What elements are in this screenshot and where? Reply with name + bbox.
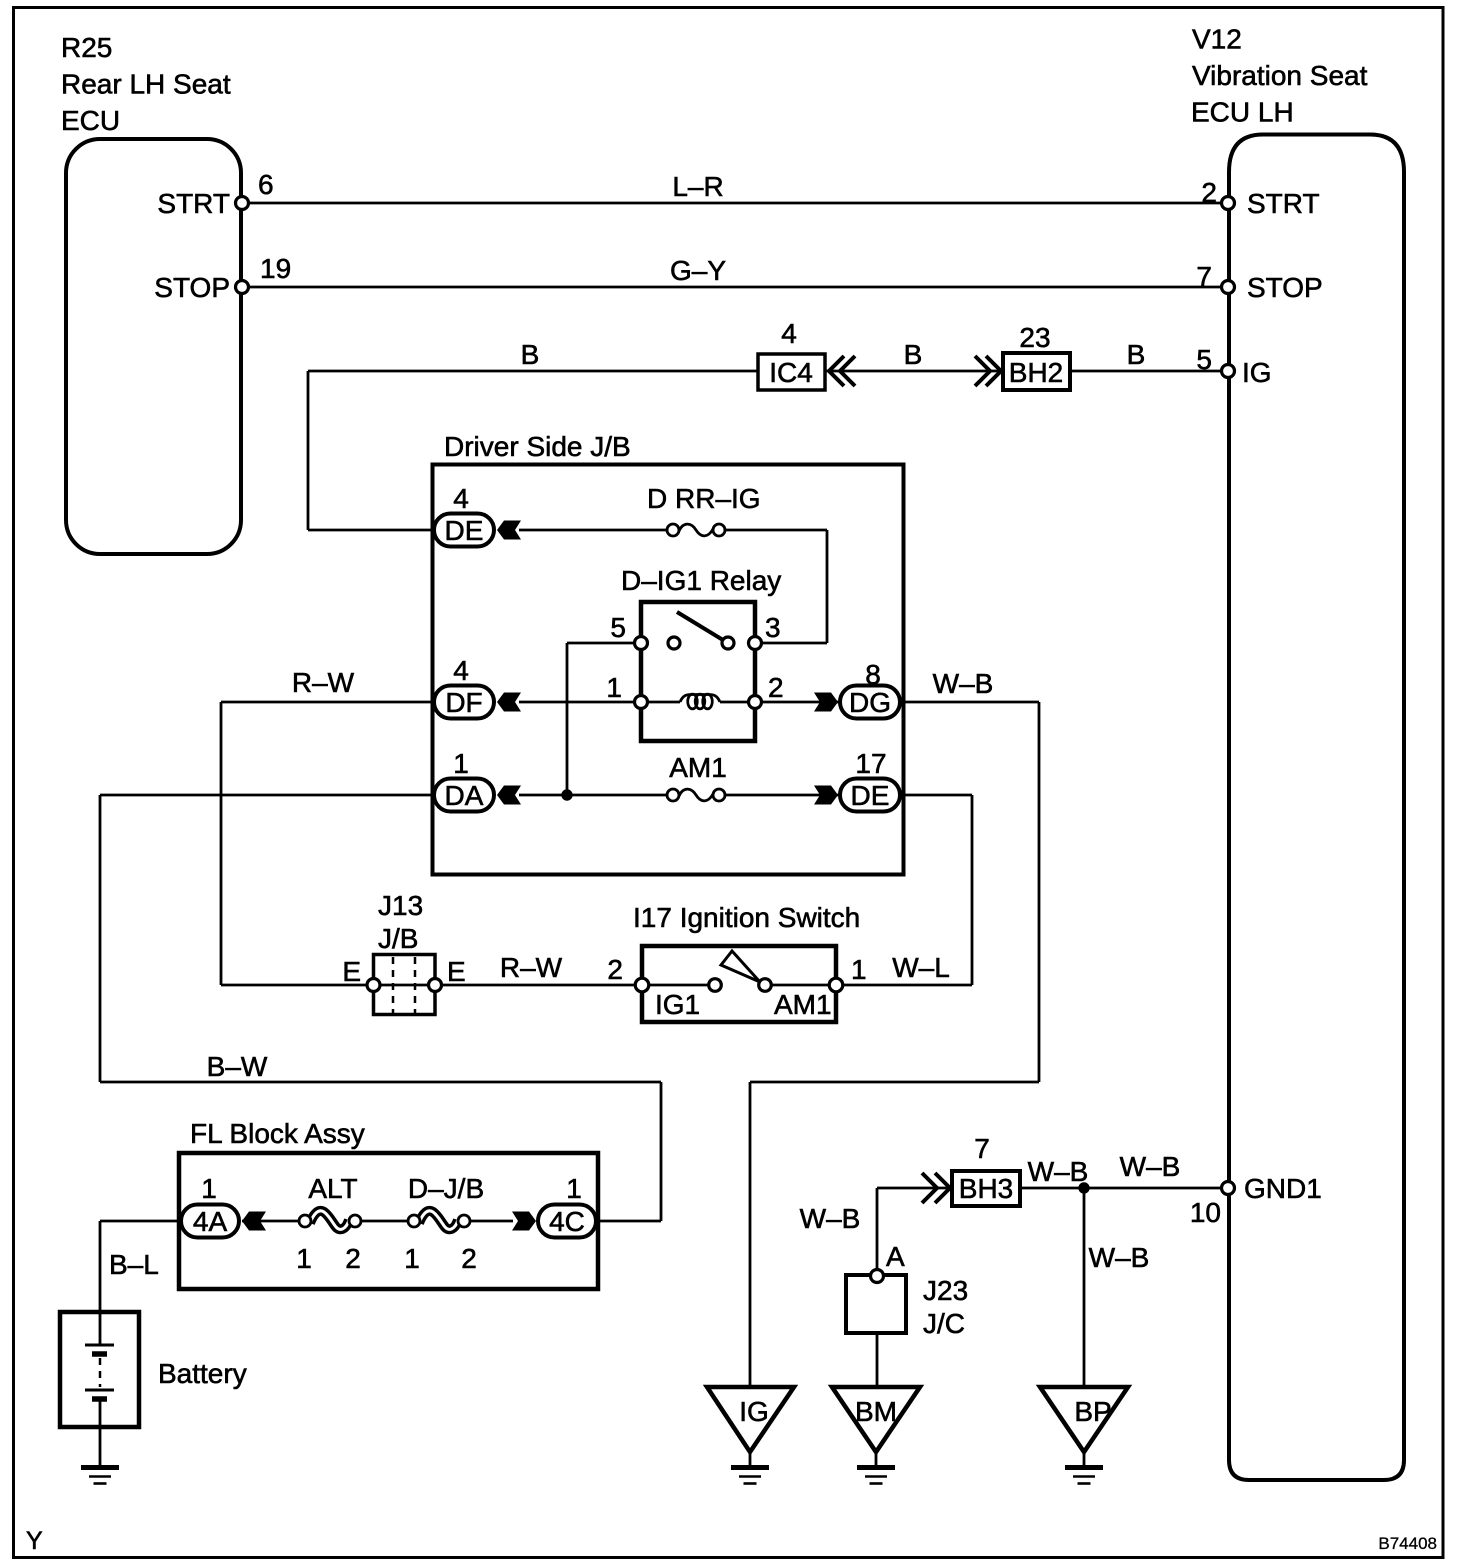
svg-text:1: 1 [566, 1173, 582, 1204]
svg-text:6: 6 [258, 169, 274, 200]
svg-text:R25: R25 [61, 32, 112, 63]
svg-text:BP: BP [1074, 1396, 1111, 1427]
svg-text:3: 3 [765, 612, 781, 643]
svg-text:G–Y: G–Y [670, 255, 726, 286]
svg-text:7: 7 [974, 1133, 990, 1164]
svg-text:J/B: J/B [378, 923, 418, 954]
svg-text:STOP: STOP [1247, 272, 1323, 303]
svg-text:ALT: ALT [308, 1173, 357, 1204]
svg-text:2: 2 [345, 1243, 361, 1274]
svg-text:J13: J13 [378, 890, 423, 921]
svg-text:B: B [1127, 339, 1146, 370]
svg-text:2: 2 [461, 1243, 477, 1274]
svg-text:1: 1 [201, 1173, 217, 1204]
svg-text:Driver Side J/B: Driver Side J/B [444, 431, 631, 462]
svg-text:A: A [886, 1241, 905, 1272]
svg-text:W–B: W–B [1089, 1242, 1150, 1273]
svg-text:DE: DE [851, 780, 890, 811]
svg-text:D–IG1 Relay: D–IG1 Relay [621, 565, 781, 596]
svg-text:2: 2 [1201, 177, 1217, 208]
svg-text:B74408: B74408 [1378, 1534, 1437, 1553]
svg-text:5: 5 [1196, 344, 1212, 375]
svg-text:4: 4 [453, 655, 469, 686]
svg-text:23: 23 [1019, 322, 1050, 353]
svg-text:DE: DE [445, 515, 484, 546]
svg-text:4: 4 [453, 483, 469, 514]
svg-text:L–R: L–R [672, 171, 723, 202]
svg-text:Vibration Seat: Vibration Seat [1192, 60, 1368, 91]
svg-text:IG1: IG1 [655, 989, 700, 1020]
svg-text:BH2: BH2 [1009, 357, 1063, 388]
svg-text:10: 10 [1190, 1197, 1221, 1228]
svg-text:DG: DG [849, 687, 891, 718]
svg-text:IG: IG [1242, 357, 1272, 388]
svg-text:STRT: STRT [157, 188, 230, 219]
svg-text:J/C: J/C [923, 1308, 965, 1339]
svg-text:E: E [342, 956, 361, 987]
svg-text:W–B: W–B [933, 668, 994, 699]
svg-text:Battery: Battery [158, 1358, 247, 1389]
svg-text:BM: BM [855, 1396, 897, 1427]
svg-text:STRT: STRT [1247, 188, 1320, 219]
svg-text:B: B [904, 339, 923, 370]
svg-text:W–B: W–B [800, 1203, 861, 1234]
svg-text:W–B: W–B [1028, 1156, 1089, 1187]
svg-text:BH3: BH3 [959, 1173, 1013, 1204]
svg-text:1: 1 [453, 748, 469, 779]
svg-text:R–W: R–W [292, 667, 355, 698]
svg-text:IC4: IC4 [769, 357, 813, 388]
svg-text:ECU: ECU [61, 105, 120, 136]
svg-text:Rear LH Seat: Rear LH Seat [61, 69, 231, 100]
svg-text:R–W: R–W [500, 952, 563, 983]
svg-text:I17 Ignition Switch: I17 Ignition Switch [633, 902, 860, 933]
svg-text:1: 1 [606, 672, 622, 703]
svg-text:7: 7 [1196, 261, 1212, 292]
svg-text:DA: DA [445, 780, 484, 811]
svg-text:W–L: W–L [892, 952, 950, 983]
svg-text:B–W: B–W [207, 1051, 268, 1082]
svg-text:GND1: GND1 [1244, 1173, 1322, 1204]
svg-text:STOP: STOP [154, 272, 230, 303]
svg-text:AM1: AM1 [669, 752, 727, 783]
svg-text:4: 4 [781, 318, 797, 349]
svg-text:D RR–IG: D RR–IG [647, 483, 761, 514]
svg-text:1: 1 [851, 954, 867, 985]
svg-text:FL Block Assy: FL Block Assy [190, 1118, 365, 1149]
svg-text:D–J/B: D–J/B [408, 1173, 484, 1204]
svg-text:19: 19 [260, 253, 291, 284]
svg-text:8: 8 [865, 659, 881, 690]
svg-text:1: 1 [296, 1243, 312, 1274]
svg-text:1: 1 [404, 1243, 420, 1274]
svg-text:2: 2 [768, 672, 784, 703]
svg-text:DF: DF [445, 687, 482, 718]
svg-text:4A: 4A [193, 1206, 228, 1237]
svg-text:E: E [447, 956, 466, 987]
svg-text:B: B [521, 339, 540, 370]
svg-text:V12: V12 [1192, 24, 1242, 55]
svg-text:Y: Y [26, 1527, 43, 1555]
svg-text:IG: IG [739, 1396, 769, 1427]
svg-text:AM1: AM1 [774, 989, 832, 1020]
svg-text:W–B: W–B [1120, 1151, 1181, 1182]
svg-text:ECU LH: ECU LH [1191, 97, 1294, 128]
svg-text:2: 2 [607, 954, 623, 985]
svg-text:4C: 4C [549, 1206, 585, 1237]
svg-text:J23: J23 [923, 1275, 968, 1306]
svg-text:17: 17 [855, 748, 886, 779]
svg-text:5: 5 [610, 612, 626, 643]
svg-text:B–L: B–L [109, 1249, 159, 1280]
